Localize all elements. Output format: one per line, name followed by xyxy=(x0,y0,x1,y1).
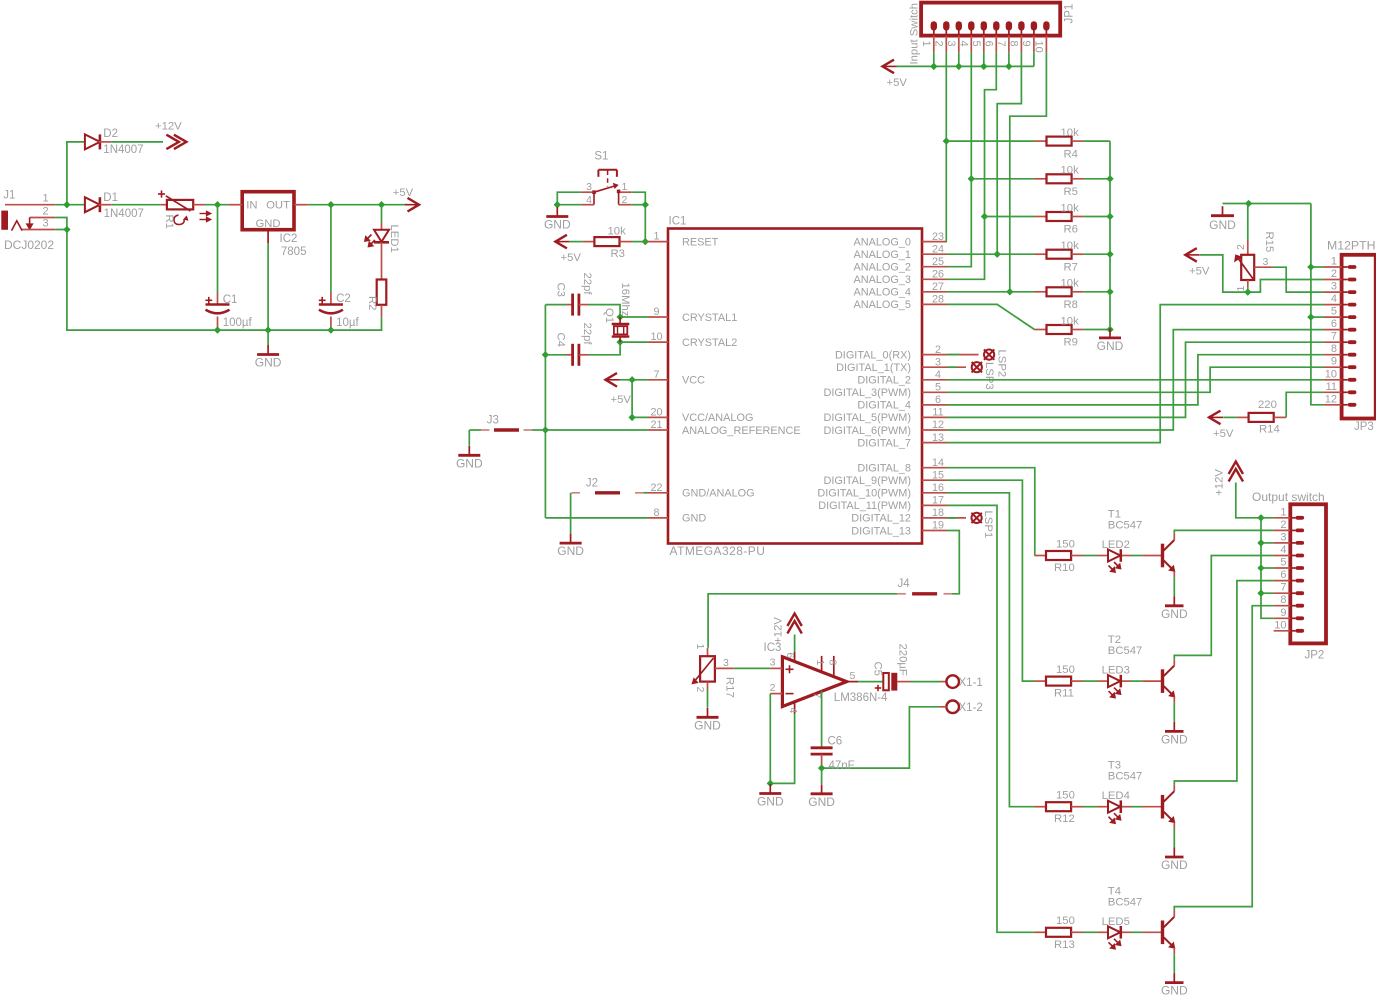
svg-text:2: 2 xyxy=(770,682,776,694)
svg-text:RESET: RESET xyxy=(682,236,719,248)
svg-text:23: 23 xyxy=(932,231,944,243)
svg-text:+5V: +5V xyxy=(1189,266,1210,278)
svg-text:4: 4 xyxy=(787,708,799,714)
wire T4 base feed xyxy=(947,505,1035,932)
svg-text:+5V: +5V xyxy=(887,77,908,89)
junction +12V node at C1 xyxy=(214,201,221,208)
svg-text:LSP2: LSP2 xyxy=(995,350,1007,378)
svg-text:R17: R17 xyxy=(724,677,736,698)
wire JP3.5 xyxy=(1311,316,1324,318)
svg-text:2: 2 xyxy=(933,41,945,47)
svg-text:7: 7 xyxy=(1280,582,1286,594)
junction R15.1 xyxy=(1244,288,1251,295)
svg-text:1N4007: 1N4007 xyxy=(103,144,143,156)
resistor R1 xyxy=(161,204,167,206)
wire T2 collector xyxy=(1174,556,1273,660)
svg-text:3: 3 xyxy=(770,657,776,669)
IC1 pin 14 DIGITAL_8 xyxy=(922,467,947,469)
svg-text:+12V: +12V xyxy=(1214,469,1226,496)
IC1 pin 2 DIGITAL_0(RX) xyxy=(922,354,947,356)
svg-text:D1: D1 xyxy=(103,192,118,204)
svg-text:9: 9 xyxy=(1331,356,1337,368)
+5V arrow R15 xyxy=(1185,248,1197,262)
junction A4/R8 xyxy=(1006,288,1013,295)
svg-text:DIGITAL_8: DIGITAL_8 xyxy=(857,463,911,475)
ground T4 xyxy=(1173,973,1175,983)
wire D13 to J4 xyxy=(947,531,959,594)
svg-text:JP2: JP2 xyxy=(1305,650,1325,662)
junction S1 gnd xyxy=(554,201,561,208)
wire A4/R8 row xyxy=(947,291,1035,293)
junction A0/R4 xyxy=(943,137,950,144)
svg-text:8: 8 xyxy=(653,507,659,519)
svg-text:R4: R4 xyxy=(1064,148,1078,160)
IC1 pin 11 DIGITAL_5(PWM) xyxy=(922,416,947,418)
svg-text:3: 3 xyxy=(723,657,729,669)
svg-text:DIGITAL_6(PWM): DIGITAL_6(PWM) xyxy=(823,425,911,437)
svg-text:GND/ANALOG: GND/ANALOG xyxy=(682,488,755,500)
svg-text:10k: 10k xyxy=(608,225,627,237)
ground T1 xyxy=(1173,596,1175,606)
svg-text:100µf: 100µf xyxy=(223,317,253,329)
svg-text:10: 10 xyxy=(650,331,662,343)
svg-text:+5V: +5V xyxy=(561,252,582,264)
IC1 pin 22 GND/ANALOG xyxy=(648,492,668,494)
resistor R6 xyxy=(1035,216,1047,218)
svg-text:DIGITAL_12: DIGITAL_12 xyxy=(851,513,911,525)
resistor R8 xyxy=(1035,291,1047,293)
wire LED3 to T2 xyxy=(1131,680,1142,682)
junction JP2 pin7 xyxy=(1257,590,1264,597)
svg-text:R5: R5 xyxy=(1064,186,1078,198)
wire A0 row xyxy=(945,241,948,243)
junction rail at C2 xyxy=(327,201,334,208)
svg-text:J4: J4 xyxy=(898,578,911,590)
capacitor C6 xyxy=(811,746,833,749)
svg-text:2: 2 xyxy=(622,194,628,206)
svg-text:JP1: JP1 xyxy=(1064,4,1076,24)
wire C1 bottom xyxy=(217,327,219,330)
op-amp IC3 LM386N-4 xyxy=(782,657,846,707)
svg-text:LSP1: LSP1 xyxy=(982,511,994,539)
svg-text:GND: GND xyxy=(757,795,784,809)
IC1 pin 25 ANALOG_2 xyxy=(922,266,947,268)
IC1 pin 5 DIGITAL_3(PWM) xyxy=(922,391,947,393)
wire R6 to gnd bus xyxy=(1084,216,1110,218)
svg-text:11: 11 xyxy=(932,407,943,419)
resistor R2 xyxy=(381,269,383,280)
svg-text:GND: GND xyxy=(456,456,483,470)
svg-text:4: 4 xyxy=(1280,544,1286,556)
ground C6 xyxy=(821,784,823,794)
svg-text:J2: J2 xyxy=(586,478,598,490)
wire IC2 OUT to +5V rail xyxy=(308,204,407,206)
wire D5 to JP3.7 xyxy=(947,342,1324,417)
junction crystal2 xyxy=(616,338,623,345)
svg-text:C2: C2 xyxy=(336,293,351,305)
wire T1 emitter xyxy=(1173,577,1175,596)
svg-text:C6: C6 xyxy=(828,736,843,748)
wire gnd symbol drop xyxy=(570,518,572,534)
svg-text:1: 1 xyxy=(1235,286,1247,292)
junction gnd bus xyxy=(1106,251,1113,258)
IC1 pin 10 CRYSTAL2 xyxy=(648,341,668,343)
wire C3 to crystal1 xyxy=(589,305,649,317)
wire R17.3 to amp + xyxy=(734,667,771,669)
svg-text:4: 4 xyxy=(1331,293,1337,305)
svg-text:DIGITAL_3(PWM): DIGITAL_3(PWM) xyxy=(823,387,911,399)
svg-text:GND: GND xyxy=(1097,339,1124,353)
resistor R5 xyxy=(1035,178,1047,180)
svg-text:4: 4 xyxy=(586,194,592,206)
solder pad LSP1 xyxy=(972,513,982,523)
wire C1 top xyxy=(217,205,219,293)
wire VCC to VCC/ANALOG xyxy=(632,380,648,418)
transistor T3 BC547 xyxy=(1142,806,1161,808)
svg-text:DIGITAL_4: DIGITAL_4 xyxy=(857,400,911,412)
wire S1 left pin4 xyxy=(557,204,581,206)
svg-text:12: 12 xyxy=(932,419,944,431)
svg-text:J1: J1 xyxy=(3,189,15,201)
svg-text:10k: 10k xyxy=(1061,165,1080,177)
terminal X1-1 xyxy=(946,675,959,688)
ground R15 net xyxy=(1222,206,1224,216)
svg-text:LED1: LED1 xyxy=(388,225,400,253)
svg-text:18: 18 xyxy=(932,507,944,519)
svg-text:R7: R7 xyxy=(1064,261,1078,273)
IC1 pin 13 DIGITAL_7 xyxy=(922,442,947,444)
wire J1.2 down xyxy=(55,218,67,230)
svg-text:2: 2 xyxy=(1331,268,1337,280)
svg-text:2: 2 xyxy=(42,205,48,217)
capacitor C3 xyxy=(545,304,566,306)
svg-text:IN: IN xyxy=(246,199,257,211)
svg-text:3: 3 xyxy=(586,181,592,193)
svg-text:GND: GND xyxy=(1161,858,1188,872)
JP3 pins xyxy=(1324,266,1342,268)
ground R17 xyxy=(707,708,709,718)
svg-text:4: 4 xyxy=(935,369,941,381)
svg-text:8: 8 xyxy=(1280,594,1286,606)
svg-text:ANALOG_2: ANALOG_2 xyxy=(853,262,911,274)
svg-text:10: 10 xyxy=(1274,619,1286,631)
svg-text:Input Switch: Input Switch xyxy=(909,3,921,65)
junction A1/R7 xyxy=(994,251,1001,258)
svg-text:2: 2 xyxy=(1280,519,1286,531)
wire JP1.4 to ANALOG_2 xyxy=(947,52,971,266)
svg-text:R15: R15 xyxy=(1263,232,1275,253)
junction AREF/J3 xyxy=(542,426,549,433)
ground IC3 xyxy=(769,784,771,794)
junction gnd bus xyxy=(1106,288,1113,295)
wire +12V to JP2 xyxy=(1236,483,1261,518)
svg-text:1: 1 xyxy=(42,193,48,205)
junction RESET node xyxy=(642,238,649,245)
LED LED2 xyxy=(1098,555,1109,557)
svg-text:DIGITAL_1(TX): DIGITAL_1(TX) xyxy=(836,362,911,374)
wire R17.2 gnd xyxy=(707,690,709,708)
wire long vertical JP3 1-5-12 xyxy=(1311,204,1324,405)
svg-text:2: 2 xyxy=(1235,244,1247,250)
svg-text:3: 3 xyxy=(1280,531,1286,543)
junction J1.3 node xyxy=(63,226,70,233)
svg-text:6: 6 xyxy=(935,394,941,406)
wire S1 right pin2 xyxy=(632,204,646,206)
svg-text:ANALOG_REFERENCE: ANALOG_REFERENCE xyxy=(682,425,801,437)
wire R7 to gnd bus xyxy=(1084,253,1110,255)
junction C4 left xyxy=(542,351,549,358)
jumper J3 xyxy=(469,429,481,431)
svg-text:LED4: LED4 xyxy=(1102,790,1130,802)
svg-text:7805: 7805 xyxy=(281,246,307,258)
wire IC3 pin6 to +12V xyxy=(794,635,796,653)
svg-text:150: 150 xyxy=(1056,664,1075,676)
svg-text:DIGITAL_9(PWM): DIGITAL_9(PWM) xyxy=(823,475,911,487)
wire T3 emitter xyxy=(1173,829,1175,848)
svg-text:1: 1 xyxy=(653,231,659,243)
wire C6 to gnd xyxy=(821,768,823,784)
svg-text:10k: 10k xyxy=(1061,127,1080,139)
+5V supply arrow (power) xyxy=(408,198,420,212)
svg-text:GND: GND xyxy=(1209,218,1236,232)
wire JP1 pin5 to bus xyxy=(983,52,985,66)
svg-text:2: 2 xyxy=(935,344,941,356)
wire LED1 top xyxy=(381,205,383,223)
wire IC2 GND down xyxy=(267,243,269,345)
wire JP1.6 jog xyxy=(947,52,996,279)
svg-text:3: 3 xyxy=(42,217,48,229)
svg-text:R6: R6 xyxy=(1064,224,1078,236)
svg-text:R11: R11 xyxy=(1054,688,1074,700)
svg-text:R8: R8 xyxy=(1064,299,1078,311)
svg-text:Q1: Q1 xyxy=(603,308,615,323)
svg-text:LED2: LED2 xyxy=(1102,539,1130,551)
wire IC3 pin7 to C6 xyxy=(821,691,823,748)
wire gnd bus xyxy=(218,329,331,331)
ground S1 xyxy=(556,207,558,217)
svg-text:3: 3 xyxy=(1331,281,1337,293)
svg-text:S1: S1 xyxy=(594,151,608,163)
wire T1 base feed xyxy=(947,468,1035,556)
svg-text:6: 6 xyxy=(1331,318,1337,330)
wire +5V to VCC xyxy=(620,379,649,381)
svg-text:7: 7 xyxy=(653,369,659,381)
svg-text:7: 7 xyxy=(995,41,1007,47)
JP1 pins and pads xyxy=(931,21,937,30)
svg-text:1N4007: 1N4007 xyxy=(104,208,144,220)
svg-text:5: 5 xyxy=(850,670,856,682)
wire JP2 pin5 xyxy=(1261,567,1274,569)
IC1 pin 28 ANALOG_5 xyxy=(922,303,947,305)
wire resistor gnd bus xyxy=(1109,141,1111,329)
ground J3 xyxy=(468,446,470,456)
wire JP1 pin3 to bus xyxy=(958,52,960,66)
junction R15.2 xyxy=(1245,200,1252,207)
wire JP1 pin9 to bus xyxy=(1033,52,1035,66)
svg-text:+12V: +12V xyxy=(773,617,785,644)
transistor T4 BC547 xyxy=(1142,931,1161,933)
wire C4 to crystal2 xyxy=(589,342,621,355)
wire JP1 +5V bus xyxy=(897,65,1034,67)
svg-text:GND: GND xyxy=(1161,732,1188,746)
wire D0 to LSP2 xyxy=(947,354,960,356)
resistor R13 xyxy=(1035,931,1047,933)
junction C2 gnd xyxy=(327,326,334,333)
wire J1.3 to GND bus xyxy=(55,230,217,331)
ground power xyxy=(267,345,269,355)
wire IC3 pin2 down xyxy=(769,694,771,784)
svg-text:+5V: +5V xyxy=(1213,428,1234,440)
LED LED3 xyxy=(1098,680,1109,682)
wire S1 right pin1 xyxy=(632,192,646,241)
wire S1 left pin3 xyxy=(557,192,581,205)
junction crystal1 xyxy=(616,313,623,320)
wire R4 row xyxy=(946,140,1034,142)
svg-text:IC1: IC1 xyxy=(669,216,687,228)
svg-text:BC547: BC547 xyxy=(1108,896,1143,908)
svg-text:GND: GND xyxy=(255,356,282,370)
svg-text:R12: R12 xyxy=(1054,813,1075,825)
solder pad LSP3 xyxy=(972,362,982,372)
svg-text:R1: R1 xyxy=(163,215,175,229)
wire D2 to +12V arrow xyxy=(111,141,163,143)
junction JP3.5 xyxy=(1307,313,1314,320)
svg-text:DIGITAL_5(PWM): DIGITAL_5(PWM) xyxy=(823,412,911,424)
svg-text:X1-1: X1-1 xyxy=(959,677,983,689)
svg-text:22pf: 22pf xyxy=(581,323,593,346)
wire R10 to LED2 xyxy=(1083,555,1098,557)
svg-text:4: 4 xyxy=(958,41,970,47)
diode D1 xyxy=(85,197,100,212)
wire JP1.8 jog xyxy=(997,52,1021,254)
svg-text:DIGITAL_2: DIGITAL_2 xyxy=(857,375,911,387)
resistor R4 xyxy=(1035,140,1047,142)
svg-text:10k: 10k xyxy=(1061,240,1080,252)
svg-text:28: 28 xyxy=(932,294,944,306)
svg-text:10k: 10k xyxy=(1061,315,1080,327)
wire X1-2 to C6 xyxy=(822,707,940,768)
IC1 pin 9 CRYSTAL1 xyxy=(648,316,668,318)
svg-text:10: 10 xyxy=(1325,368,1337,380)
svg-text:5: 5 xyxy=(970,41,982,47)
resistor R3 xyxy=(583,241,595,243)
svg-text:OUT: OUT xyxy=(266,199,290,211)
svg-text:LED3: LED3 xyxy=(1102,665,1130,677)
resistor R9 xyxy=(1035,329,1047,331)
resistor R11 xyxy=(1035,680,1047,682)
wire T4 collector xyxy=(1174,606,1273,911)
wire +5V to R15.1 to JP3.2 xyxy=(1200,255,1324,292)
svg-text:LED5: LED5 xyxy=(1102,916,1130,928)
svg-text:VCC/ANALOG: VCC/ANALOG xyxy=(682,412,753,424)
svg-text:DIGITAL_11(PWM): DIGITAL_11(PWM) xyxy=(818,500,911,512)
regulator IC2 7805 xyxy=(242,192,294,230)
svg-text:CRYSTAL1: CRYSTAL1 xyxy=(682,312,737,324)
wire D12 to LSP1 xyxy=(947,517,957,519)
svg-text:IC2: IC2 xyxy=(280,233,298,245)
connector JP1 header body xyxy=(921,3,1060,36)
wire R12 to LED4 xyxy=(1083,806,1098,808)
wire D1 to LSP3 xyxy=(947,366,957,368)
IC1 pin 17 DIGITAL_11(PWM) xyxy=(922,504,947,506)
wire T3 base feed xyxy=(947,493,1035,807)
wire R1 to IC2 IN xyxy=(205,204,229,206)
junction C1 gnd xyxy=(214,326,221,333)
wire R14 to JP3.11 xyxy=(1286,392,1323,417)
svg-text:9: 9 xyxy=(1280,607,1286,619)
wire D7 to JP3.4 xyxy=(947,305,1324,443)
svg-text:DIGITAL_10(PWM): DIGITAL_10(PWM) xyxy=(817,488,911,500)
connector JP3 body xyxy=(1342,255,1376,419)
wire +5V to R3 xyxy=(570,241,583,243)
svg-text:C5: C5 xyxy=(872,662,884,676)
svg-text:13: 13 xyxy=(932,432,944,444)
svg-text:220µF: 220µF xyxy=(897,644,909,676)
wire JP2 pin1 xyxy=(1261,517,1274,519)
wire C3C4 left vertical xyxy=(544,305,546,518)
svg-text:J3: J3 xyxy=(487,414,499,426)
svg-text:1: 1 xyxy=(920,41,932,47)
svg-text:ANALOG_1: ANALOG_1 xyxy=(853,249,911,261)
svg-text:5: 5 xyxy=(1331,306,1337,318)
wire R6 row xyxy=(985,216,1035,218)
crystal Q1 xyxy=(619,317,621,324)
svg-text:ANALOG_4: ANALOG_4 xyxy=(853,287,911,299)
svg-text:C1: C1 xyxy=(223,294,238,306)
resistor R7 xyxy=(1035,253,1047,255)
svg-text:10k: 10k xyxy=(1061,278,1080,290)
IC1 pin 1 RESET xyxy=(648,241,668,243)
junction JP1 pin3 xyxy=(955,63,962,70)
svg-text:21: 21 xyxy=(650,419,662,431)
IC1 pin 26 ANALOG_3 xyxy=(922,278,947,280)
junction J1.1 node xyxy=(63,201,70,208)
IC1 pin 24 ANALOG_1 xyxy=(922,253,947,255)
wire IC3 out to C5 xyxy=(858,681,883,683)
svg-text:16: 16 xyxy=(932,482,944,494)
wire LED2 to T1 xyxy=(1131,555,1142,557)
svg-text:GND: GND xyxy=(255,218,280,230)
wire C2 bottom xyxy=(330,327,332,330)
svg-text:D2: D2 xyxy=(103,128,118,140)
wire JP2 pin3 xyxy=(1261,542,1274,544)
ground T3 xyxy=(1173,848,1175,858)
svg-text:3: 3 xyxy=(935,356,941,368)
svg-text:10µf: 10µf xyxy=(336,317,359,329)
junction VCC xyxy=(628,376,635,383)
svg-text:Output switch: Output switch xyxy=(1252,490,1325,504)
jumper J2 xyxy=(571,492,580,494)
wire R15.3 to JP3.3 xyxy=(1273,267,1323,292)
connector J1 DCJ0202 xyxy=(1,211,8,230)
svg-text:+12V: +12V xyxy=(155,121,182,133)
svg-text:10k: 10k xyxy=(1061,202,1080,214)
switch S1 xyxy=(598,169,617,171)
transistor T2 BC547 xyxy=(1142,680,1161,682)
diode D2 xyxy=(85,134,100,149)
wire D2 to JP3.10 xyxy=(947,379,1324,381)
svg-text:22pf: 22pf xyxy=(581,273,593,296)
svg-text:C4: C4 xyxy=(555,333,567,347)
svg-text:150: 150 xyxy=(1056,915,1075,927)
IC U1 ATMEGA328-PU body xyxy=(668,229,922,544)
IC1 pin 7 VCC xyxy=(648,379,668,381)
wire J4 to R17 xyxy=(708,594,897,648)
wire R5 to gnd bus xyxy=(1084,178,1110,180)
wire +5V to R14 xyxy=(1223,416,1236,418)
svg-text:150: 150 xyxy=(1056,790,1075,802)
svg-text:11: 11 xyxy=(1326,381,1337,393)
